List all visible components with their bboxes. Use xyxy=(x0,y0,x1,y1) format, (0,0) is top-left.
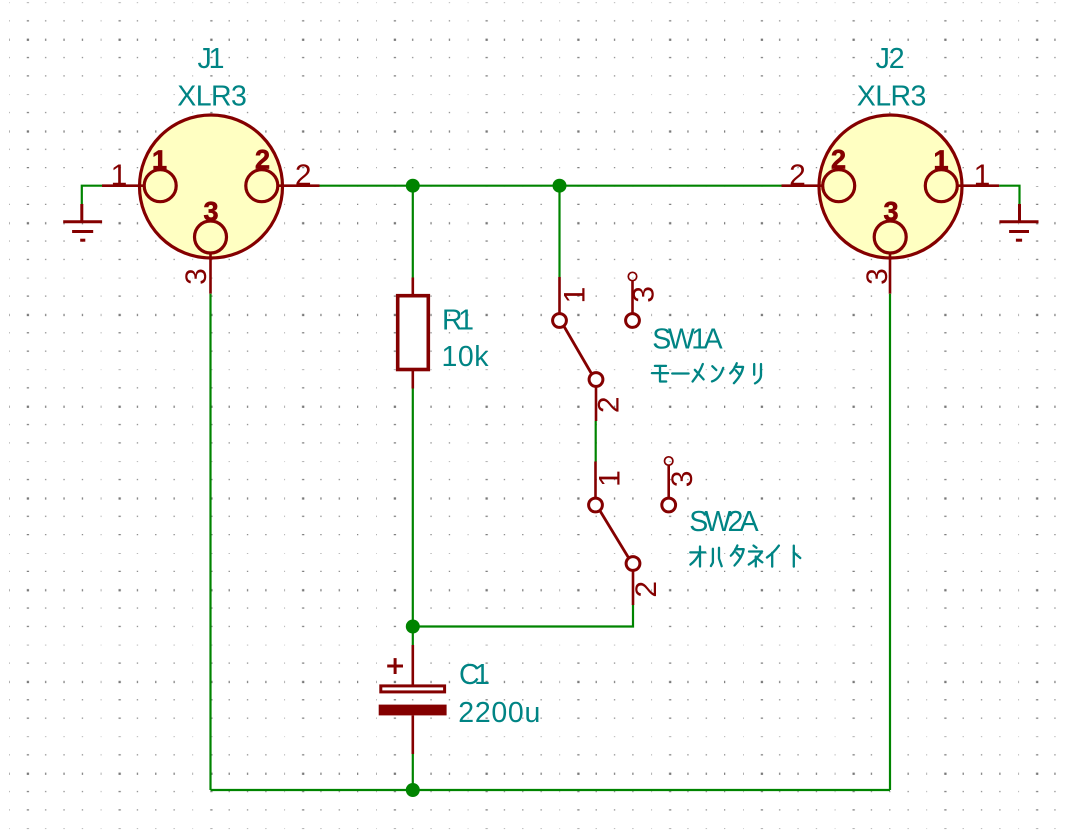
switch SW1A xyxy=(553,272,640,421)
svg-text:2: 2 xyxy=(592,396,625,413)
switch SW2A xyxy=(589,457,676,605)
svg-text:J2: J2 xyxy=(876,43,905,75)
J2 pin 3 xyxy=(874,221,906,294)
junction node B xyxy=(553,179,567,193)
svg-text:XLR3: XLR3 xyxy=(857,81,927,113)
ground GND1 xyxy=(63,204,102,240)
junction node C xyxy=(406,620,420,634)
svg-text:1: 1 xyxy=(111,159,128,192)
svg-text:1: 1 xyxy=(974,159,991,192)
R1 value label 10k xyxy=(442,341,490,373)
J1 reference label xyxy=(198,43,225,75)
J2 pin 2 xyxy=(782,170,855,202)
wire node C to C1 xyxy=(412,627,414,647)
SW1A pin number 1 xyxy=(558,287,591,304)
wire R1 to node C xyxy=(412,389,414,627)
SW1A pin number 3 xyxy=(628,286,661,303)
J2 pad number 2 xyxy=(831,144,846,174)
J1 pin 3 xyxy=(195,221,227,294)
connector J1 body xyxy=(140,115,283,258)
svg-text:2: 2 xyxy=(789,159,806,192)
C1 reference label xyxy=(459,659,490,691)
J1 pad number 3 xyxy=(203,196,218,226)
svg-text:XLR3: XLR3 xyxy=(177,81,247,113)
C1 plus polarity mark xyxy=(387,658,403,674)
svg-text:3: 3 xyxy=(666,471,699,488)
J2 pin 1 xyxy=(925,170,999,202)
SW2A value label katakana alternate xyxy=(690,546,800,567)
SW1A value label katakana momentary xyxy=(652,363,761,383)
svg-text:1: 1 xyxy=(558,287,591,304)
svg-text:C1: C1 xyxy=(459,659,490,691)
svg-text:SW1A: SW1A xyxy=(652,323,722,355)
J1 pad number 1 xyxy=(152,145,167,175)
svg-text:J1: J1 xyxy=(198,43,225,75)
svg-text:2200u: 2200u xyxy=(458,697,540,729)
wire bottom net xyxy=(211,789,891,791)
svg-text:3: 3 xyxy=(883,196,898,226)
J2 value label XLR3 xyxy=(857,81,927,113)
SW1A reference label xyxy=(652,323,722,355)
svg-text:3: 3 xyxy=(628,286,661,303)
SW2A pin number 1 xyxy=(594,470,627,487)
J1 pin number 3 xyxy=(180,268,213,285)
J2 pin number 3 xyxy=(861,268,894,285)
resistor R1 xyxy=(398,278,429,389)
wire J1 pin3 down xyxy=(209,294,211,790)
svg-text:1: 1 xyxy=(933,145,948,175)
svg-text:1: 1 xyxy=(594,470,627,487)
capacitor C1 xyxy=(379,645,447,754)
J2 pad number 1 xyxy=(933,145,948,175)
wire node A to R1 xyxy=(412,186,414,278)
J2 pin number 1 xyxy=(974,159,991,192)
R1 reference label xyxy=(442,305,474,337)
wire J1 pin2 to J2 pin2 xyxy=(320,185,782,187)
svg-text:1: 1 xyxy=(152,145,167,175)
J1 pin 2 xyxy=(246,170,320,202)
J2 reference label xyxy=(876,43,905,75)
svg-text:2: 2 xyxy=(295,159,312,192)
svg-text:10k: 10k xyxy=(442,341,490,373)
connector J2 body xyxy=(819,115,962,258)
SW2A reference label xyxy=(689,506,758,538)
wire node B to SW1A pin1 xyxy=(558,186,560,277)
svg-text:SW2A: SW2A xyxy=(689,506,758,538)
svg-text:R1: R1 xyxy=(442,305,474,337)
SW2A pin number 3 xyxy=(666,471,699,488)
wire C1 to bottom net xyxy=(412,754,414,790)
SW2A pin number 2 xyxy=(630,581,663,598)
J1 value label XLR3 xyxy=(177,81,247,113)
J1 pin number 1 xyxy=(111,159,128,192)
wire J2 pin1 to GND2 xyxy=(999,186,1019,206)
J1 pad number 2 xyxy=(255,144,270,174)
SW1A pin number 2 xyxy=(592,396,625,413)
junction node A xyxy=(406,179,420,193)
J2 pad number 3 xyxy=(883,196,898,226)
svg-text:3: 3 xyxy=(861,268,894,285)
svg-text:2: 2 xyxy=(255,144,270,174)
J1 pin number 2 xyxy=(295,159,312,192)
ground GND2 xyxy=(999,204,1038,240)
wire node C to SW2A pin2 xyxy=(413,605,633,627)
C1 value label 2200u xyxy=(458,697,540,729)
J1 pin 1 xyxy=(102,170,176,202)
wire SW1A pin2 to SW2A pin1 xyxy=(595,421,597,462)
svg-text:2: 2 xyxy=(831,144,846,174)
J2 pin number 2 xyxy=(789,159,806,192)
wire GND1 to J1 pin1 xyxy=(82,186,102,206)
wire J2 pin3 down xyxy=(889,294,891,790)
svg-text:3: 3 xyxy=(180,268,213,285)
junction node D xyxy=(406,783,420,797)
svg-text:3: 3 xyxy=(203,196,218,226)
svg-text:2: 2 xyxy=(630,581,663,598)
